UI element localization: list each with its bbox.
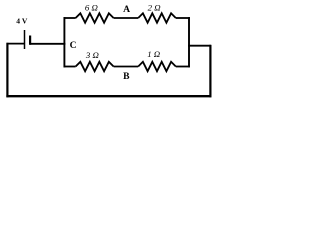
resistor R2 2ohm — [138, 13, 176, 22]
resistor R3 3ohm — [76, 62, 114, 71]
wire: 1ohm to right bus — [176, 66, 190, 68]
svg-text:B: B — [123, 71, 130, 82]
resistor R4 1ohm — [138, 62, 176, 71]
wire: 3ohm to 1ohm through node B — [114, 66, 139, 68]
battery BT1 short plate (-) — [29, 36, 31, 45]
node C vertical bus — [63, 17, 65, 67]
wire: left lead from outer loop to battery long plate — [7, 43, 25, 45]
wire: right bus to outer loop — [188, 45, 211, 47]
right junction vertical bus — [188, 17, 190, 67]
svg-text:3 Ω: 3 Ω — [85, 50, 100, 60]
wire: node C to resistor 3ohm — [64, 66, 76, 68]
svg-text:6 Ω: 6 Ω — [85, 2, 99, 12]
battery BT1 long plate (+) — [24, 30, 26, 49]
wire: 6ohm to 2ohm through node A — [114, 17, 139, 19]
svg-text:4 V: 4 V — [16, 17, 28, 26]
svg-text:A: A — [123, 4, 130, 15]
resistor R1 6ohm — [76, 13, 114, 22]
svg-text:1 Ω: 1 Ω — [147, 49, 161, 59]
wire: outer left vertical — [6, 43, 8, 98]
wire: outer right vertical — [209, 45, 211, 98]
svg-text:2 Ω: 2 Ω — [148, 2, 162, 12]
wire: 2ohm to right bus — [176, 17, 190, 19]
wire: battery short plate to node C bus — [30, 43, 65, 45]
svg-text:C: C — [70, 40, 77, 51]
wire: bottom return — [6, 95, 211, 97]
wire: node C to resistor 6ohm — [64, 17, 76, 19]
